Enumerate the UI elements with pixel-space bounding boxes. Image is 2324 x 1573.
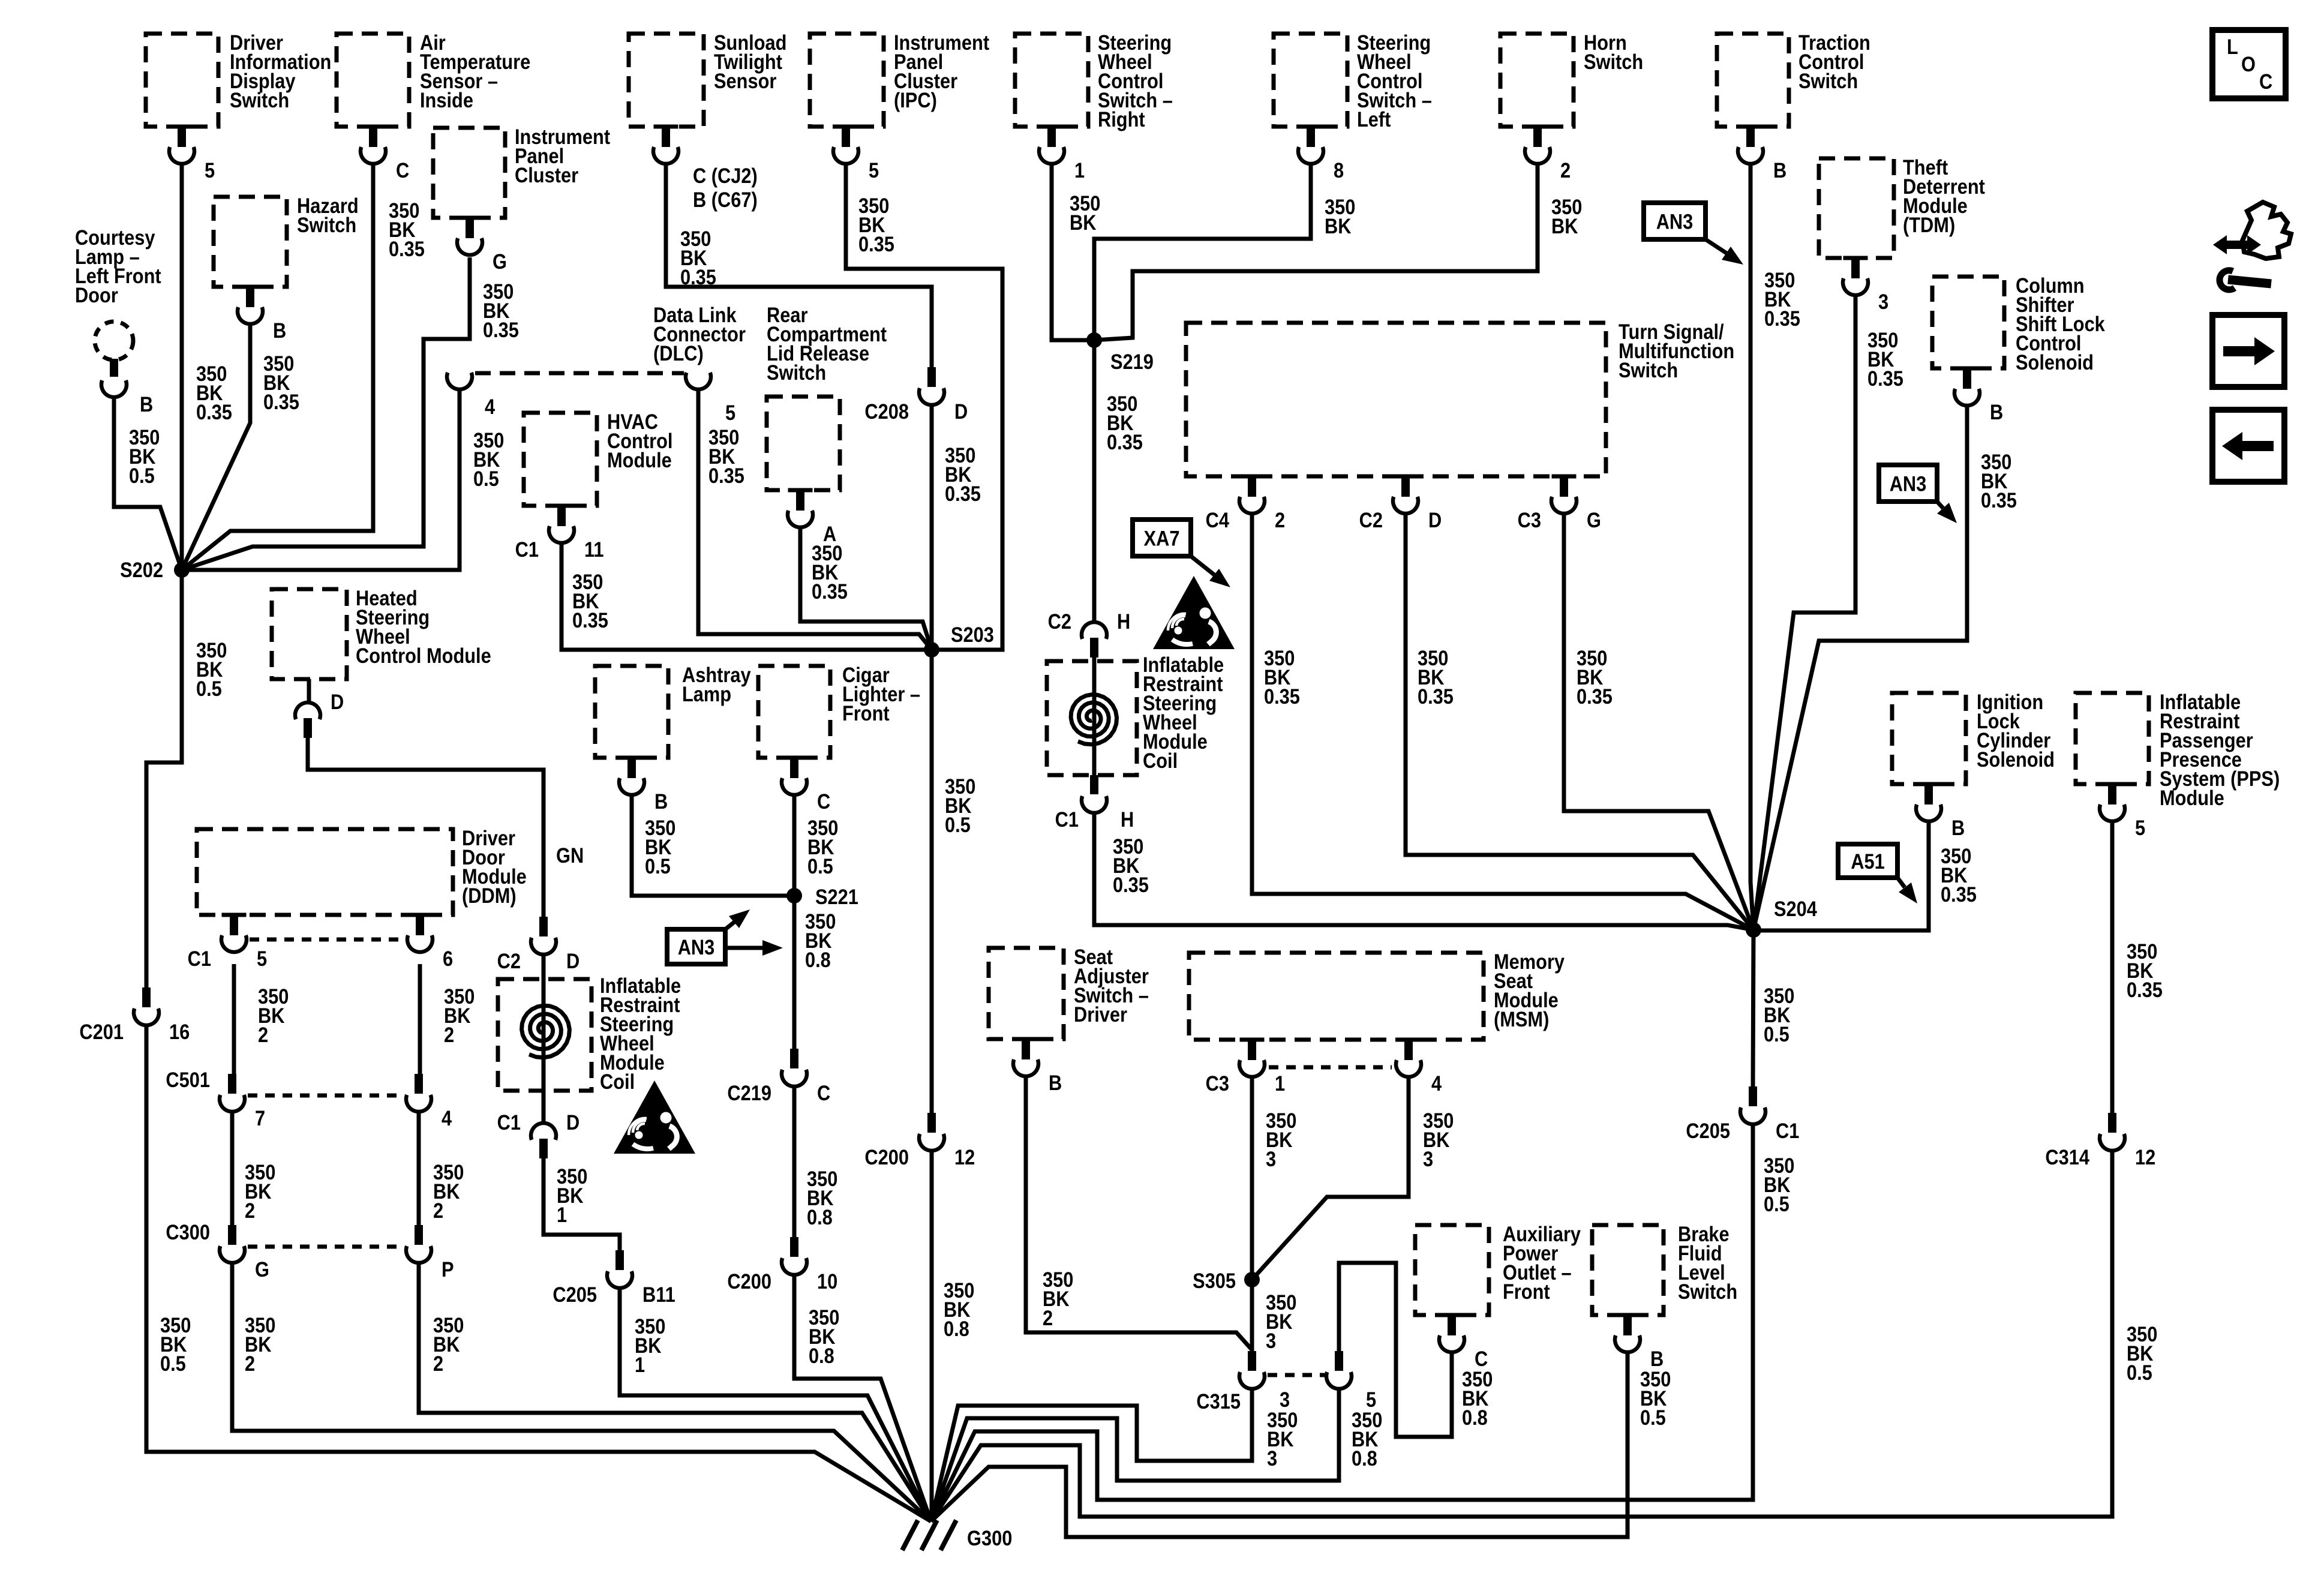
component Inflatable Restraint Steering Wheel Module Coil (left) <box>498 979 591 1091</box>
svg-text:D: D <box>566 1110 580 1134</box>
svg-text:1: 1 <box>1074 158 1085 182</box>
svg-text:3: 3 <box>1266 1329 1276 1352</box>
svg-text:S221: S221 <box>815 885 858 908</box>
svg-text:P: P <box>442 1257 454 1281</box>
svg-text:C1: C1 <box>1055 807 1079 831</box>
svg-text:C: C <box>2259 70 2272 93</box>
splice S305 <box>1244 1272 1260 1287</box>
legend tool/wrench icon <box>2213 235 2261 254</box>
wire dashed to Data Link Connector <box>475 371 684 376</box>
svg-text:BK: BK <box>1325 214 1352 238</box>
svg-text:S203: S203 <box>951 623 994 646</box>
svg-text:B: B <box>140 392 153 416</box>
svg-text:Left: Left <box>1357 107 1391 131</box>
wire C219 C to C200 10 <box>792 1086 797 1238</box>
connector C4 pin 2 of Turn Signal Switch <box>1240 475 1265 479</box>
svg-text:0.35: 0.35 <box>196 400 232 424</box>
wire Rear Compartment Lid Release A to S203 <box>800 527 932 650</box>
svg-text:Driver: Driver <box>1074 1002 1127 1026</box>
connector C314 pin 12 <box>2108 1113 2116 1133</box>
svg-text:5: 5 <box>725 401 735 424</box>
callout AN3 (right) <box>1879 465 1937 502</box>
svg-text:(TDM): (TDM) <box>1903 213 1955 236</box>
svg-text:C2: C2 <box>1048 610 1071 633</box>
svg-text:H: H <box>1121 807 1134 831</box>
svg-text:3: 3 <box>1266 1147 1276 1170</box>
svg-text:G: G <box>1587 508 1601 532</box>
svg-text:11: 11 <box>584 538 604 561</box>
svg-text:16: 16 <box>169 1020 190 1043</box>
svg-text:(IPC): (IPC) <box>894 88 937 112</box>
connector C300 pin G <box>228 1225 236 1245</box>
svg-text:0.5: 0.5 <box>1764 1192 1789 1215</box>
svg-text:4: 4 <box>1431 1071 1442 1095</box>
wire DDM 6 to C501 4 <box>418 964 422 1075</box>
component Driver Door Module (DDM) <box>197 829 453 915</box>
svg-text:XA7: XA7 <box>1144 527 1180 550</box>
svg-text:0.35: 0.35 <box>680 265 716 289</box>
svg-text:0.8: 0.8 <box>1352 1446 1377 1470</box>
connector pin C of Auxiliary Power Outlet <box>1440 1313 1464 1317</box>
svg-text:B: B <box>1990 400 2003 424</box>
svg-text:2: 2 <box>1560 158 1571 182</box>
component Cigar Lighter - Front <box>758 666 830 758</box>
wire S202 to C201 pin 16 <box>146 570 182 989</box>
svg-text:B: B <box>273 319 286 342</box>
wire Auxiliary Power Outlet C to C315 5 <box>1339 1263 1452 1437</box>
component Turn Signal / Multifunction Switch <box>1186 323 1606 476</box>
svg-text:3: 3 <box>1878 290 1888 313</box>
svg-text:Switch: Switch <box>1584 50 1643 73</box>
svg-text:2: 2 <box>444 1023 454 1046</box>
svg-text:2: 2 <box>258 1023 268 1046</box>
component Auxiliary Power Outlet - Front <box>1415 1225 1489 1315</box>
svg-text:1: 1 <box>635 1353 645 1376</box>
wire Horn Switch 2 to S219 <box>1094 166 1538 340</box>
svg-text:C201: C201 <box>79 1020 124 1043</box>
svg-text:S305: S305 <box>1193 1269 1236 1292</box>
svg-text:Sensor: Sensor <box>714 69 777 92</box>
connector pin B of Seat Adjuster Switch <box>1014 1037 1038 1041</box>
svg-text:(DLC): (DLC) <box>653 341 704 365</box>
component Theft Deterrent Module (TDM) <box>1819 158 1894 258</box>
wire Driver Information Display Switch 5 to S202 <box>180 166 184 570</box>
airbag warning triangle (left) <box>614 1080 695 1154</box>
svg-text:Right: Right <box>1098 107 1145 131</box>
dashed link DDM connectors <box>250 938 404 942</box>
connector C3 pin G of Turn Signal Switch <box>1552 475 1577 479</box>
wire C200 12 to G300 <box>930 1151 934 1521</box>
svg-text:0.5: 0.5 <box>945 813 971 836</box>
svg-text:5: 5 <box>257 947 267 970</box>
splice S219 <box>1086 332 1102 348</box>
svg-text:0.35: 0.35 <box>389 237 425 260</box>
connector C315 pin 5 <box>1335 1351 1343 1371</box>
wire Air Temperature Sensor C to S202 <box>182 166 373 570</box>
svg-text:B: B <box>1951 816 1965 839</box>
svg-text:C1: C1 <box>497 1110 521 1134</box>
svg-text:AN3: AN3 <box>1890 472 1927 496</box>
svg-text:Switch: Switch <box>1678 1280 1737 1303</box>
svg-text:0.5: 0.5 <box>2127 1361 2152 1384</box>
splice S202 <box>174 562 190 578</box>
svg-text:GN: GN <box>556 843 584 867</box>
component Instrument Panel Cluster <box>433 128 505 218</box>
svg-text:C219: C219 <box>727 1081 771 1104</box>
svg-text:0.35: 0.35 <box>1113 873 1149 896</box>
connector pin B of Column Shifter Solenoid <box>1955 367 1980 371</box>
component Ignition Lock Cylinder Solenoid <box>1892 693 1966 784</box>
svg-text:2: 2 <box>245 1199 255 1222</box>
svg-text:0.5: 0.5 <box>1764 1022 1789 1046</box>
wire C201 pin 16 inline connector <box>142 987 151 1007</box>
svg-text:4: 4 <box>442 1106 452 1130</box>
wire Hazard Switch B to S202 <box>182 324 250 570</box>
callout AN3 (left) <box>667 929 725 964</box>
svg-text:Cluster: Cluster <box>515 163 578 187</box>
svg-text:C208: C208 <box>864 400 909 423</box>
svg-text:S219: S219 <box>1110 350 1154 373</box>
svg-text:Switch: Switch <box>1619 358 1678 382</box>
connector C1 pin H of coil <box>1090 775 1098 794</box>
svg-text:Door: Door <box>75 283 118 307</box>
component Traction Control Switch <box>1717 34 1789 127</box>
svg-text:C314: C314 <box>2045 1145 2089 1169</box>
svg-text:7: 7 <box>255 1106 265 1130</box>
svg-text:0.35: 0.35 <box>483 318 519 341</box>
svg-text:0.8: 0.8 <box>944 1317 969 1340</box>
svg-text:0.35: 0.35 <box>1107 430 1143 454</box>
svg-text:1: 1 <box>557 1203 567 1226</box>
wire S204 down to C205 C1 <box>1753 930 1753 1088</box>
svg-text:0.35: 0.35 <box>708 464 744 487</box>
svg-text:0.5: 0.5 <box>196 677 222 700</box>
connector pin 2 of Horn Switch <box>1526 125 1550 129</box>
svg-text:D: D <box>1428 508 1442 532</box>
wire Heated Steering Wheel Control Module to connector D <box>307 679 311 703</box>
coil winding symbol (left) <box>542 954 546 1122</box>
svg-text:Coil: Coil <box>600 1070 635 1093</box>
svg-text:0.5: 0.5 <box>129 464 155 487</box>
svg-text:5: 5 <box>205 158 215 182</box>
svg-text:C200: C200 <box>864 1145 909 1169</box>
wire Courtesy Lamp B to S202 <box>114 397 182 570</box>
callout XA7 <box>1133 520 1191 556</box>
airbag warning triangle (right) <box>1153 576 1235 649</box>
connector pin 6 of DDM <box>408 913 433 917</box>
svg-text:C (CJ2): C (CJ2) <box>693 164 758 187</box>
connector C2 pin H of Inflatable Restraint Steering Wheel Module Coil <box>1082 622 1107 639</box>
component Memory Seat Module (MSM) <box>1189 953 1484 1040</box>
connector pin B of Ashtray Lamp <box>620 756 644 760</box>
svg-text:3: 3 <box>1267 1446 1277 1470</box>
legend right arrow box <box>2212 315 2284 387</box>
wire C315 3 to G300 <box>931 1389 1252 1521</box>
splice S204 <box>1746 922 1761 938</box>
wire Traction Control B to S204 <box>1750 166 1753 930</box>
svg-text:Switch: Switch <box>297 213 356 236</box>
legend LOC box <box>2212 30 2286 98</box>
connector C200 pin 10 <box>790 1237 798 1257</box>
connector C1 pin 5 of DDM <box>222 913 247 917</box>
svg-text:C1: C1 <box>188 947 211 970</box>
svg-text:0.5: 0.5 <box>807 854 833 878</box>
svg-text:0.35: 0.35 <box>1941 882 1977 906</box>
wire connector 4 to S202 <box>182 391 460 570</box>
connector C1 pin 11 of HVAC Control Module <box>550 504 574 508</box>
callout A51 <box>1838 844 1897 878</box>
svg-text:0.5: 0.5 <box>473 467 499 490</box>
svg-text:Module: Module <box>2160 786 2224 809</box>
component Inflatable Restraint Steering Wheel Module Coil (right) <box>1047 661 1137 775</box>
wire MSM C3 1 to S305 <box>1250 1077 1254 1280</box>
connector pin G of Instrument Panel Cluster <box>458 216 482 220</box>
component Instrument Panel Cluster (IPC) <box>810 34 884 127</box>
connector pin 5 of PPS Module <box>2100 782 2125 786</box>
wire PPS 5 to C314 <box>2110 823 2115 1114</box>
dashed link C501 <box>248 1094 403 1098</box>
component Driver Information Display Switch <box>146 34 218 127</box>
splice S221 <box>786 888 802 903</box>
svg-text:B: B <box>1049 1071 1062 1094</box>
wire Instrument Panel Cluster G to connector 4 to S202 <box>182 257 470 570</box>
svg-text:C300: C300 <box>166 1220 210 1244</box>
svg-text:B11: B11 <box>642 1283 675 1306</box>
wire Column Shifter B to S204 <box>1753 407 1967 930</box>
wire Ashtray B to S221 <box>632 797 794 896</box>
connector C2 pin D of left coil <box>539 917 548 936</box>
svg-text:AN3: AN3 <box>1656 210 1694 233</box>
connector pin C of Cigar Lighter <box>782 756 807 760</box>
wire Seat Adjuster B to C315 3 <box>1026 1078 1252 1350</box>
svg-text:Module: Module <box>607 448 672 472</box>
component Seat Adjuster Switch - Driver <box>989 948 1064 1039</box>
connector 5 (DLC) <box>686 373 711 389</box>
svg-text:C3: C3 <box>1206 1071 1229 1095</box>
svg-text:AN3: AN3 <box>678 935 715 959</box>
connector C315 pin 3 <box>1248 1351 1256 1371</box>
connector pin C/B of Sunload Twilight Sensor <box>654 125 678 129</box>
connector C200 pin 12 <box>927 1113 936 1133</box>
svg-text:0.35: 0.35 <box>1867 367 1903 390</box>
svg-text:Solenoid: Solenoid <box>1977 748 2055 771</box>
connector pin B of Hazard Switch <box>238 285 263 289</box>
svg-text:6: 6 <box>443 947 453 970</box>
svg-text:2: 2 <box>433 1199 443 1222</box>
svg-text:(MSM): (MSM) <box>1494 1007 1549 1031</box>
connector pin A of Rear Compartment Lid Release Switch <box>788 488 813 493</box>
svg-text:0.8: 0.8 <box>807 1205 833 1229</box>
svg-text:S204: S204 <box>1774 897 1818 920</box>
svg-text:S202: S202 <box>120 558 163 581</box>
component HVAC Control Module <box>524 413 597 506</box>
wire C1 H to S204 <box>1094 813 1753 930</box>
wire C315 5 to G300 <box>931 1389 1339 1521</box>
svg-text:C1: C1 <box>515 538 539 561</box>
component Steering Wheel Control Switch - Left <box>1274 34 1347 127</box>
svg-text:0.5: 0.5 <box>160 1352 186 1375</box>
svg-text:C3: C3 <box>1518 508 1541 532</box>
svg-text:0.35: 0.35 <box>1264 685 1300 708</box>
svg-text:Front: Front <box>842 701 890 725</box>
wire C2 H into coil <box>1092 657 1097 775</box>
svg-text:0.35: 0.35 <box>572 608 608 632</box>
svg-text:O: O <box>2241 52 2256 76</box>
svg-text:A51: A51 <box>1851 849 1884 873</box>
component Hazard Switch <box>214 197 287 287</box>
svg-text:2: 2 <box>1275 508 1285 532</box>
svg-text:1: 1 <box>1275 1071 1285 1095</box>
connector C205 pin C1 <box>1749 1086 1757 1106</box>
component Inflatable Restraint Passenger Presence System (PPS) Module <box>2076 693 2149 784</box>
wire C200 10 to G300 <box>794 1275 931 1521</box>
wire D to C2 D coil connector (GN) <box>308 737 544 919</box>
svg-text:D: D <box>331 690 344 713</box>
svg-text:Coil: Coil <box>1143 749 1178 772</box>
svg-text:Inside: Inside <box>420 88 473 112</box>
wire S221 to C219 C <box>792 896 797 1050</box>
wire Sunload Sensor to C208 <box>666 166 932 368</box>
ground G300 <box>902 1520 918 1550</box>
connector 4 (instrument panel harness) <box>447 373 472 389</box>
connector pin 4 of MSM <box>1397 1038 1421 1042</box>
svg-text:Control Module: Control Module <box>356 644 491 667</box>
wire C501 7 to C300 G <box>230 1112 235 1226</box>
wire C300 P to G300 <box>419 1263 931 1521</box>
connector C1 pin D of left coil <box>531 1123 556 1140</box>
svg-text:0.35: 0.35 <box>263 390 299 413</box>
wire Steering Wheel Control Right 1 to S219 <box>1052 166 1094 340</box>
wire S305 to C315 3 <box>1250 1280 1254 1352</box>
connector C208 pin D <box>927 367 936 387</box>
svg-text:C1: C1 <box>1776 1119 1799 1142</box>
wire Brake Fluid Level B to G300 <box>931 1354 1628 1537</box>
connector pin B of Ignition Lock Cylinder Solenoid <box>1917 782 1941 786</box>
svg-text:C2: C2 <box>1359 508 1383 532</box>
connector pin D of Heated Steering Wheel Control Module <box>295 703 320 719</box>
svg-text:C: C <box>817 1081 830 1104</box>
component Brake Fluid Level Switch <box>1592 1225 1664 1315</box>
svg-text:D: D <box>954 400 968 423</box>
connector pin B of Brake Fluid Level Switch <box>1616 1313 1640 1317</box>
wire DLC 5 to S203 <box>698 391 932 650</box>
wire C208 D to S203 <box>930 405 934 650</box>
component Heated Steering Wheel Control Module <box>272 589 347 679</box>
connector C501 pin 7 <box>228 1074 236 1094</box>
svg-text:0.35: 0.35 <box>812 580 848 603</box>
svg-text:10: 10 <box>817 1269 837 1293</box>
connector pin 1 of Steering Wheel Control Switch Right <box>1040 125 1064 129</box>
svg-text:C200: C200 <box>727 1269 771 1293</box>
svg-text:0.35: 0.35 <box>1418 685 1454 708</box>
connector pin C of Air Temperature Sensor <box>361 125 386 129</box>
svg-text:G300: G300 <box>967 1526 1012 1550</box>
svg-text:Switch: Switch <box>1798 69 1858 92</box>
component Air Temperature Sensor - Inside <box>337 34 409 127</box>
connector C2 pin D of Turn Signal Switch <box>1394 475 1418 479</box>
component Sunload Twilight Sensor <box>629 34 704 127</box>
connector C501 pin 4 <box>415 1074 423 1094</box>
svg-text:C501: C501 <box>166 1068 210 1091</box>
svg-text:0.35: 0.35 <box>858 232 894 256</box>
svg-text:12: 12 <box>954 1145 975 1169</box>
svg-text:Switch: Switch <box>230 88 289 112</box>
svg-text:8: 8 <box>1334 158 1344 182</box>
wire TDM 3 to S204 <box>1753 297 1855 930</box>
svg-text:C2: C2 <box>497 949 521 972</box>
svg-text:2: 2 <box>245 1352 255 1375</box>
svg-text:0.8: 0.8 <box>1462 1406 1488 1429</box>
connector C300 pin P <box>415 1225 423 1245</box>
svg-text:Switch: Switch <box>767 361 826 384</box>
svg-text:C: C <box>817 789 830 813</box>
svg-text:G: G <box>493 250 507 273</box>
wire C314 12 to G300 <box>931 1151 2112 1521</box>
svg-text:C315: C315 <box>1196 1389 1241 1413</box>
dashed link C315 connectors <box>1268 1373 1325 1377</box>
svg-text:5: 5 <box>2135 816 2145 839</box>
svg-text:D: D <box>566 949 580 972</box>
svg-text:C205: C205 <box>553 1283 597 1306</box>
svg-text:0.35: 0.35 <box>1577 685 1613 708</box>
svg-text:B: B <box>654 789 668 813</box>
wire C205 C1 to G300 <box>931 1124 1753 1521</box>
svg-text:(DDM): (DDM) <box>462 884 517 907</box>
connector C219 pin C <box>790 1049 798 1068</box>
svg-text:C4: C4 <box>1206 508 1230 532</box>
component Steering Wheel Control Switch - Right <box>1015 34 1088 127</box>
callout AN3 (top) <box>1644 203 1706 239</box>
svg-text:0.8: 0.8 <box>805 948 831 971</box>
svg-text:BK: BK <box>1551 214 1578 238</box>
svg-text:0.35: 0.35 <box>1764 307 1800 330</box>
svg-text:C205: C205 <box>1686 1119 1730 1142</box>
legend left arrow box <box>2212 410 2284 482</box>
svg-text:L: L <box>2227 35 2238 58</box>
wire S219 to C2 H coil connector <box>1092 340 1097 622</box>
svg-text:Front: Front <box>1503 1280 1550 1303</box>
splice S203 <box>924 642 939 658</box>
wire Turn Signal C4 2 to S204 <box>1252 515 1753 930</box>
svg-text:0.35: 0.35 <box>2127 978 2163 1001</box>
svg-text:H: H <box>1117 610 1130 633</box>
svg-text:5: 5 <box>869 158 879 182</box>
svg-text:3: 3 <box>1423 1147 1433 1170</box>
wire C205 B11 to G300 <box>620 1288 931 1521</box>
connector pin B of Courtesy Lamp <box>110 359 118 377</box>
wire DDM 5 to C501 7 <box>232 964 236 990</box>
svg-text:G: G <box>255 1257 269 1281</box>
wire C1 D to C205 B11 <box>544 1158 620 1251</box>
svg-text:Lamp: Lamp <box>682 682 731 706</box>
component Horn Switch <box>1500 34 1574 127</box>
wire Steering Wheel Control Left 8 to S219 <box>1094 166 1311 340</box>
svg-text:B (C67): B (C67) <box>693 188 758 211</box>
svg-text:0.35: 0.35 <box>945 482 981 505</box>
wire HVAC C1 11 to S203 <box>562 543 932 650</box>
svg-text:C: C <box>396 158 409 182</box>
wire MSM 4 to S305 <box>1252 1077 1409 1280</box>
svg-text:0.5: 0.5 <box>1640 1406 1666 1429</box>
connector C205 pin B11 <box>615 1250 624 1270</box>
component Column Shifter Shift Lock Control Solenoid <box>1932 277 2004 368</box>
wire Turn Signal C2 D to S204 <box>1406 515 1753 930</box>
svg-text:BK: BK <box>1070 211 1097 234</box>
wire C501 4 to C300 P <box>417 1112 421 1226</box>
svg-text:12: 12 <box>2135 1145 2155 1169</box>
svg-text:2: 2 <box>433 1352 443 1375</box>
svg-text:4: 4 <box>485 395 496 418</box>
